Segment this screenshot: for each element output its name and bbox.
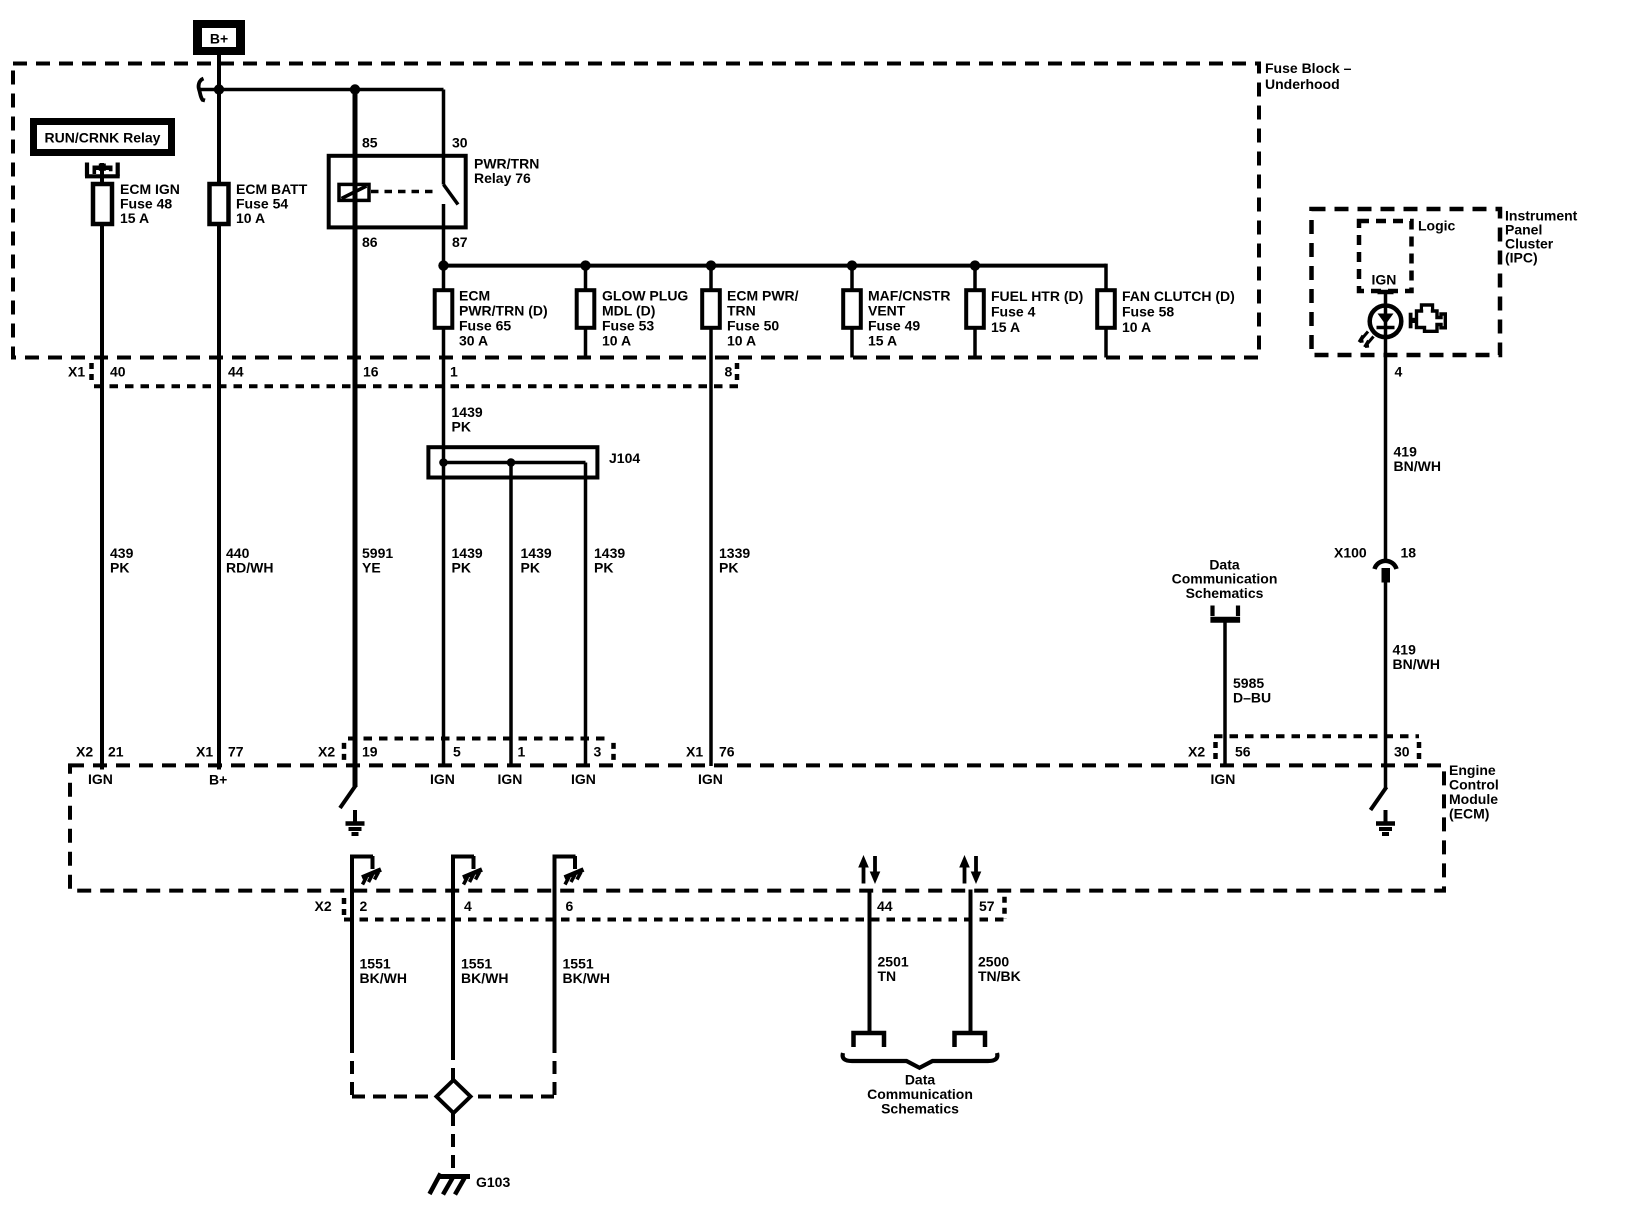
ground symbol (hatched) at ECM pin4 wire	[463, 856, 482, 885]
svg-text:Fuse 65: Fuse 65	[459, 318, 511, 334]
svg-text:IGN: IGN	[571, 771, 596, 787]
svg-text:X2: X2	[315, 898, 332, 914]
svg-text:ECM: ECM	[459, 288, 490, 304]
svg-text:30: 30	[1394, 744, 1410, 760]
svg-text:6: 6	[566, 898, 574, 914]
wire: harness hook at left end of B+ link	[199, 79, 205, 101]
svg-text:4: 4	[1395, 364, 1403, 380]
svg-text:Fuse 53: Fuse 53	[602, 318, 654, 334]
svg-text:TN: TN	[878, 968, 897, 984]
wire: relay pin30 feed, x=443.5	[442, 90, 446, 185]
wire: serial data 2501 TN x=869.5	[868, 890, 872, 1033]
svg-text:MAF/CNSTR: MAF/CNSTR	[868, 288, 950, 304]
relay coil	[339, 184, 369, 200]
fuse F48 ECM IGN 15A	[93, 184, 112, 224]
svg-text:87: 87	[452, 234, 468, 250]
svg-text:Fuse 58: Fuse 58	[1122, 304, 1174, 320]
svg-text:(ECM): (ECM)	[1449, 806, 1489, 822]
svg-text:MDL (D): MDL (D)	[602, 303, 655, 319]
fuse F65 ECM PWR/TRN (D) 30A	[435, 290, 453, 328]
bidirectional arrows at ECM pin 57	[959, 855, 981, 884]
svg-text:15 A: 15 A	[991, 319, 1020, 335]
connector X1 row under fuse block: dotted line	[94, 384, 740, 388]
LED diode triangle	[1378, 314, 1394, 325]
wire: 419 BN/WH lower segment to ECM pin30 switch	[1384, 582, 1388, 788]
svg-text:IGN: IGN	[1211, 771, 1236, 787]
splice diamond S-node	[437, 1080, 471, 1113]
svg-text:BK/WH: BK/WH	[563, 970, 610, 986]
svg-text:1: 1	[518, 744, 526, 760]
svg-text:PK: PK	[594, 560, 613, 576]
svg-text:BK/WH: BK/WH	[360, 970, 407, 986]
fuse F4 FUEL HTR (D) 15A	[966, 290, 984, 328]
svg-text:IGN: IGN	[498, 771, 523, 787]
svg-text:1: 1	[450, 364, 458, 380]
svg-text:RD/WH: RD/WH	[226, 560, 273, 576]
connector X1 dotted vertical right (pin 8)	[735, 363, 740, 382]
dotted vertical left of pin56	[1213, 742, 1218, 760]
svg-text:44: 44	[228, 364, 244, 380]
svg-text:BN/WH: BN/WH	[1393, 656, 1440, 672]
svg-text:Schematics: Schematics	[1186, 585, 1264, 601]
LED diode bar	[1377, 326, 1395, 330]
svg-text:Underhood: Underhood	[1265, 76, 1340, 92]
svg-text:X100: X100	[1334, 545, 1367, 561]
wire: dashed splice horizontal y=1096.5	[352, 1095, 555, 1099]
svg-text:PK: PK	[110, 560, 129, 576]
connector X1 dotted vertical left	[89, 363, 94, 382]
svg-text:IGN: IGN	[1372, 272, 1397, 288]
svg-text:J104: J104	[609, 450, 640, 466]
svg-text:10 A: 10 A	[602, 333, 631, 349]
svg-text:Logic: Logic	[1418, 218, 1456, 234]
ECM internal switch to ground at pin 30	[1371, 787, 1396, 834]
svg-text:FUEL HTR (D): FUEL HTR (D)	[991, 288, 1083, 304]
brace under data terminators	[843, 1053, 998, 1068]
power symbol B+	[193, 20, 245, 55]
svg-text:PK: PK	[452, 419, 471, 435]
svg-text:GLOW PLUG: GLOW PLUG	[602, 288, 688, 304]
junction dot J104 left	[439, 458, 448, 467]
svg-text:4: 4	[464, 898, 472, 914]
svg-text:PWR/TRN (D): PWR/TRN (D)	[459, 303, 548, 319]
svg-text:Fuse 50: Fuse 50	[727, 318, 779, 334]
junction dots on fuse bus	[438, 260, 448, 270]
connector terminal symbol below RUN/CRNK relay label	[85, 163, 120, 177]
wire: main fuse bus y=265.6	[444, 264, 1107, 268]
svg-text:Schematics: Schematics	[881, 1101, 959, 1117]
svg-text:PK: PK	[719, 560, 738, 576]
svg-text:IGN: IGN	[698, 771, 723, 787]
wire: J104 internal bus y=462.5	[444, 461, 586, 465]
svg-text:16: 16	[363, 364, 379, 380]
engine control module dashed box	[70, 765, 1444, 890]
engine icon (check engine)	[1409, 305, 1446, 331]
svg-text:D–BU: D–BU	[1233, 690, 1271, 706]
wire: J104 to ECM pin3, x=585.5	[584, 463, 588, 767]
LED emission arrows	[1359, 332, 1368, 343]
svg-text:85: 85	[362, 135, 378, 151]
svg-text:15 A: 15 A	[120, 210, 149, 226]
svg-text:BK/WH: BK/WH	[461, 970, 508, 986]
svg-text:G103: G103	[476, 1174, 510, 1190]
wire: dashed drop from splice to G103	[451, 1113, 455, 1171]
svg-text:X2: X2	[1188, 744, 1205, 760]
svg-text:10 A: 10 A	[1122, 319, 1151, 335]
svg-text:10 A: 10 A	[727, 333, 756, 349]
svg-text:21: 21	[108, 744, 124, 760]
svg-text:30: 30	[452, 135, 468, 151]
svg-text:X1: X1	[686, 744, 703, 760]
svg-text:ECM PWR/: ECM PWR/	[727, 288, 799, 304]
ground symbol (hatched) at ECM pin6 wire	[565, 856, 584, 885]
wire: J104 to ECM pin1, x=511	[509, 463, 513, 767]
wire: relay coil feed 5991 YE, x=355 from link down through relay to ECM X2-19	[353, 90, 358, 788]
wire: top horizontal B+ link y=89.5	[200, 88, 444, 92]
wire: B+ feed 440 RD/WH, x=219 from B+ symbol to ECM X1-77	[217, 54, 221, 770]
svg-text:X2: X2	[318, 744, 335, 760]
svg-text:3: 3	[594, 744, 602, 760]
svg-text:44: 44	[877, 898, 893, 914]
wire: dashed splice run x=453	[451, 1048, 455, 1082]
svg-text:40: 40	[110, 364, 126, 380]
wire: data link 5985 D-BU stem x=1225	[1223, 620, 1227, 766]
svg-text:YE: YE	[362, 560, 381, 576]
svg-text:TN/BK: TN/BK	[978, 968, 1021, 984]
svg-text:RUN/CRNK Relay: RUN/CRNK Relay	[45, 130, 161, 146]
wire: ECM ground 1551 BK/WH circuit, x=352 pin2	[352, 857, 373, 1041]
fuse block underhood dashed box	[13, 64, 1259, 358]
LED wire through circle	[1384, 306, 1388, 337]
svg-text:5: 5	[453, 744, 461, 760]
svg-text:18: 18	[1401, 545, 1417, 561]
dotted vertical left of pin19	[342, 743, 347, 762]
wire: fuse48 circuit 439 PK, x=102 from RUN/CRNK terminal to ECM X2-21	[100, 163, 104, 770]
svg-text:X1: X1	[68, 364, 85, 380]
wire: MAF/CNSTR VENT fuse drop x=852	[850, 266, 854, 358]
data communication bracket (to ECM pin56)	[1213, 606, 1239, 617]
svg-text:(IPC): (IPC)	[1505, 250, 1538, 266]
LED indicator circle	[1370, 306, 1402, 338]
relay PWR/TRN Relay 76 box	[329, 156, 466, 228]
svg-text:86: 86	[362, 234, 378, 250]
junction dot at relay coil feed / horizontal link	[350, 84, 360, 94]
ECM top connector dotted row (pins 56/30)	[1214, 734, 1419, 738]
inline connector X100	[1375, 561, 1397, 583]
svg-text:VENT: VENT	[868, 303, 906, 319]
ECM top connector dotted row (pins 19/5/1/3)	[348, 737, 610, 741]
fuse F58 FAN CLUTCH (D) 10A	[1097, 290, 1115, 328]
ECM bottom connector dotted row (pins 2/4/6/44/57)	[344, 918, 1005, 922]
relay switch blade	[444, 185, 459, 205]
wire: dashed splice run x=352 to G103 splice	[350, 1040, 354, 1097]
svg-text:Fuse Block –: Fuse Block –	[1265, 60, 1352, 76]
svg-text:56: 56	[1235, 744, 1251, 760]
fuse F54 ECM BATT 10A	[210, 184, 229, 224]
wire: relay pin87 output down to bus and through fuse65, J104, to ECM pin5	[442, 204, 446, 766]
svg-text:Fuse 4: Fuse 4	[991, 304, 1036, 320]
svg-text:X1: X1	[196, 744, 213, 760]
off-page terminator at 2501 TN	[854, 1033, 885, 1047]
svg-text:8: 8	[725, 364, 733, 380]
dotted vertical right of pin30	[1417, 742, 1422, 761]
instrument panel cluster dashed box	[1312, 209, 1501, 355]
fuse F53 GLOW PLUG MDL (D) 10A	[577, 290, 595, 328]
svg-text:IGN: IGN	[88, 771, 113, 787]
wire: ECM PWR/TRN fuse50 circuit 1339 PK x=711 to ECM X1-76	[709, 266, 713, 766]
svg-text:PK: PK	[452, 560, 471, 576]
junction block J104	[428, 447, 597, 477]
wire: FAN CLUTCH fuse drop x=1106	[1104, 264, 1108, 358]
fuse F50 ECM PWR/TRN 10A	[702, 290, 720, 328]
wire: dashed splice run x=554.5	[553, 1040, 557, 1097]
logic dashed box	[1359, 221, 1412, 291]
svg-text:15 A: 15 A	[868, 333, 897, 349]
svg-text:Fuse 49: Fuse 49	[868, 318, 920, 334]
svg-text:X2: X2	[76, 744, 93, 760]
svg-text:57: 57	[979, 898, 995, 914]
svg-text:30 A: 30 A	[459, 333, 488, 349]
svg-text:77: 77	[228, 744, 244, 760]
off-page terminator at 2500 TN/BK	[955, 1033, 986, 1047]
dotted vertical left of pin2	[342, 898, 347, 915]
fuse F49 MAF/CNSTR VENT 15A	[843, 290, 861, 328]
RUN/CRNK Relay label box	[30, 118, 175, 156]
svg-text:BN/WH: BN/WH	[1394, 458, 1441, 474]
junction dot J104 middle	[507, 458, 516, 467]
svg-text:PK: PK	[521, 560, 540, 576]
svg-text:FAN CLUTCH (D): FAN CLUTCH (D)	[1122, 288, 1235, 304]
svg-text:TRN: TRN	[727, 303, 756, 319]
ground symbol (hatched) at ECM pin2 wire	[362, 856, 381, 885]
svg-text:76: 76	[719, 744, 735, 760]
dotted vertical right of pin3	[611, 743, 616, 762]
relay coil-to-switch dashed link	[371, 190, 437, 194]
junction dot at B+ wire / horizontal link	[214, 84, 224, 94]
svg-text:B+: B+	[210, 31, 228, 47]
wire: ECM ground 1551 BK/WH circuit, x=453 pin4	[453, 857, 474, 1049]
svg-text:19: 19	[362, 744, 378, 760]
wire: serial data 2500 TN/BK x=970.5	[969, 890, 973, 1033]
ECM internal switch to ground at pin 19	[340, 766, 365, 834]
dotted vertical right of pin57	[1002, 897, 1007, 919]
svg-text:B+: B+	[209, 772, 227, 788]
svg-text:Relay 76: Relay 76	[474, 170, 531, 186]
svg-text:10 A: 10 A	[236, 210, 265, 226]
ground G103 symbol	[430, 1174, 471, 1195]
wire: IPC ign feed 419 BN/WH x=1385.5 upper segment	[1384, 292, 1388, 560]
bidirectional arrows at ECM pin 44	[858, 855, 880, 884]
svg-text:2: 2	[360, 898, 368, 914]
svg-text:IGN: IGN	[430, 771, 455, 787]
wire: ECM ground 1551 BK/WH circuit, x=554.5 pin6	[555, 857, 576, 1041]
wire: glow plug fuse drop x=585.5	[584, 266, 588, 358]
logic box output terminal bar	[1378, 290, 1394, 295]
wire: FUEL HTR fuse drop x=975	[973, 266, 977, 358]
